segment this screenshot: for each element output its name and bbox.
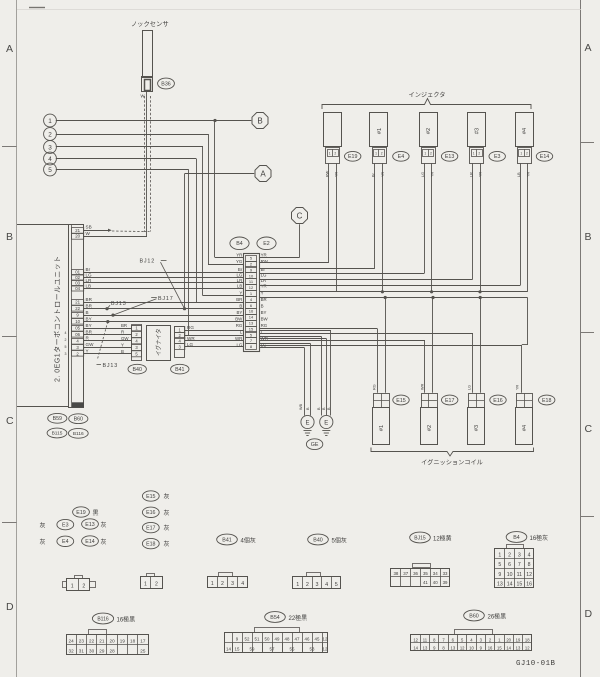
off-page octagon A [255,166,271,182]
svg-text:12: 12 [323,647,328,652]
connector E3 oval [489,151,505,161]
wire ECU to strip at y=321.6 [84,321,243,323]
wire 4 horizontal [56,158,196,160]
svg-text:YR: YR [430,171,434,177]
igniter connector B41 pin column [175,327,185,358]
svg-text:Y: Y [86,349,89,354]
wire 1 to B [56,120,252,122]
svg-text:2: 2 [430,151,432,155]
svg-text:灰: 灰 [164,509,170,517]
svg-text:2: 2 [478,151,480,155]
wire ground vertical 3 [321,337,323,416]
svg-text:8: 8 [528,562,531,568]
legend 2-pin connector (black type) [67,579,90,591]
svg-text:35: 35 [423,571,428,576]
knock sensor connector [142,77,153,92]
wire 5 vertical [188,170,190,336]
wire injector1 signal row [259,268,375,270]
svg-text:5: 5 [48,167,52,174]
top-left registration dash [29,7,45,9]
svg-text:06: 06 [75,332,80,337]
svg-text:E3: E3 [62,523,69,529]
svg-text:1: 1 [48,118,52,125]
svg-text:D: D [6,601,14,613]
injector #3 [468,113,486,147]
svg-text:40: 40 [433,580,438,585]
wire row1 left [215,257,243,259]
right tick 3 [581,516,594,518]
svg-text:E14: E14 [540,154,549,160]
svg-text:11: 11 [423,637,428,642]
wire ECU to igniter B40 at y=340.9 [84,340,132,342]
svg-text:24: 24 [69,639,75,644]
BJ17 label dash [151,297,157,299]
legend B40 oval [308,534,329,545]
injector connector 3 [470,148,484,164]
svg-text:LR: LR [469,172,473,177]
ignition coil bracket [371,448,534,457]
svg-text:04: 04 [75,286,80,291]
svg-text:10: 10 [75,319,80,324]
svg-text:3: 3 [65,352,67,356]
svg-text:#1: #1 [377,128,383,134]
svg-text:1: 1 [520,151,522,155]
svg-text:2: 2 [306,582,309,588]
svg-text:GE: GE [311,442,319,448]
injector connector 1 [373,148,387,164]
ground GE oval [306,439,322,450]
svg-text:LR: LR [237,278,243,283]
injector #1 [370,113,388,147]
svg-text:#4: #4 [522,425,528,431]
wire injector1 left vertical [374,163,376,268]
wire injector4 signal row [259,285,520,287]
svg-text:LG: LG [468,385,472,390]
wire SB shield drain from ECU pin 21 [84,230,108,232]
ignition coil #1 connector [374,394,390,408]
legend B40 connector face [293,577,341,589]
wire row7 left [203,295,243,297]
connector B36 oval [158,78,175,89]
svg-text:B115: B115 [52,431,63,437]
svg-text:50: 50 [265,637,270,642]
svg-text:19: 19 [120,639,126,644]
connector E19 oval [345,151,361,161]
svg-text:A: A [585,42,592,54]
svg-text:E4: E4 [398,154,405,160]
legend B60 connector face [411,635,532,651]
ground terminal E at x=326.3 [320,415,333,435]
svg-text:B: B [585,231,592,243]
svg-text:3: 3 [518,552,521,558]
svg-text:11: 11 [517,572,522,578]
junction BJ13 lower [106,320,109,323]
svg-text:E2: E2 [263,241,270,247]
svg-text:13: 13 [451,645,456,650]
svg-text:21: 21 [75,300,80,305]
wire coil4 down to connector [521,345,523,393]
svg-text:YR: YR [335,171,339,177]
svg-text:B60: B60 [469,613,478,619]
ECU connector box [69,225,84,408]
svg-text:E4: E4 [62,539,69,545]
svg-text:W: W [141,94,145,99]
svg-text:YR: YR [261,252,267,257]
svg-text:46: 46 [305,637,310,642]
wire B41 to strip y=330 [185,330,243,332]
svg-text:R: R [121,330,124,335]
strip pin cells [246,256,257,262]
wire ground row 5 [259,330,331,332]
ECU pin cells group 2 (01-04) [72,270,84,276]
svg-text:14: 14 [226,647,231,652]
svg-text:14: 14 [506,645,511,650]
legend E13 oval [82,519,99,529]
ground terminal E at x=307.5 [301,415,314,435]
svg-text:W: W [86,231,91,236]
wire B41 to strip y=341 [185,340,243,342]
svg-text:5個灰: 5個灰 [332,536,347,544]
svg-text:E19: E19 [348,154,357,160]
svg-text:B41: B41 [175,367,184,373]
svg-text:YR: YR [381,171,385,177]
BJ12 label dash [161,260,167,262]
svg-text:イグニッションコイル: イグニッションコイル [421,459,483,467]
svg-text:B116: B116 [73,431,84,437]
svg-text:#3: #3 [475,128,481,134]
svg-text:BY: BY [261,310,267,315]
injector #4 [516,113,534,147]
svg-text:7: 7 [518,562,521,568]
ECU pin column divider [71,224,73,407]
svg-text:灰: 灰 [164,540,170,548]
injector connector 0 [326,148,340,164]
svg-text:E: E [305,420,309,426]
svg-text:16極黒: 16極黒 [117,615,136,623]
svg-text:BY: BY [86,316,92,321]
svg-text:03: 03 [75,281,80,286]
svg-text:E19: E19 [76,510,85,516]
wire ground vertical 2 [310,344,312,416]
BJ12 leader line [161,262,185,309]
wire row2 left [208,264,243,266]
legend B41 oval [217,534,238,545]
svg-text:E: E [324,420,328,426]
svg-text:RG: RG [236,323,243,328]
svg-text:4: 4 [65,331,67,335]
svg-text:E13: E13 [85,522,94,528]
svg-text:#2: #2 [427,425,433,431]
svg-text:12: 12 [323,637,328,642]
svg-text:01: 01 [75,270,80,275]
svg-text:13: 13 [497,582,503,588]
legend E18 oval [142,538,159,548]
svg-text:BR: BR [86,304,93,309]
wire 5 horizontal [56,169,189,171]
svg-text:29: 29 [99,649,105,654]
left tick 2 [2,336,17,338]
shield dashed right [150,96,152,232]
svg-text:5: 5 [335,582,338,588]
wire vertical from junction to strip row 1 [214,121,216,258]
svg-text:10: 10 [469,645,474,650]
svg-text:BW: BW [235,317,243,322]
wire injector common row [259,291,527,293]
svg-text:5: 5 [65,345,67,349]
svg-text:55: 55 [290,647,295,652]
legend B54 connector face [225,633,328,653]
legend E19 oval [73,507,90,517]
off-page octagon B [252,113,268,129]
svg-text:YR: YR [516,384,520,390]
svg-text:14: 14 [507,582,513,588]
connector B59 oval [48,413,67,423]
wire injector3 signal row [259,279,472,281]
svg-text:12: 12 [249,285,254,290]
shield dashed bottom [144,231,151,233]
junction injector common x=431.6 [430,290,433,293]
arrowhead on shield drain [108,229,112,232]
svg-text:LB: LB [86,283,92,288]
svg-text:13: 13 [423,645,428,650]
svg-text:RW: RW [325,170,329,177]
svg-text:黒: 黒 [93,510,99,517]
svg-text:B: B [239,304,242,309]
wire ECU to igniter B40 at y=347.4 [84,347,132,349]
wire coil4 long row [259,345,522,347]
wire ECU to igniter B40 at y=328 [84,328,132,330]
svg-text:A: A [6,43,13,55]
svg-text:15: 15 [235,647,240,652]
injector (unnumbered) [324,113,342,147]
svg-text:B4: B4 [513,535,520,541]
svg-text:33: 33 [443,571,448,576]
wire injector0 left vertical [328,163,330,263]
svg-text:RG: RG [261,323,268,328]
svg-text:23: 23 [79,639,85,644]
frame top border [17,9,581,11]
svg-text:E17: E17 [146,526,155,532]
connector E17 oval [442,395,458,405]
BJ17 leader line [113,299,157,315]
connector E18 oval [539,395,555,405]
svg-text:15: 15 [497,645,502,650]
connector B60 oval [69,414,88,424]
svg-text:B59: B59 [53,416,62,422]
wire ECU to igniter B40 at y=353.8 [84,353,132,355]
legend B116 connector face [67,635,149,655]
svg-text:2: 2 [65,338,67,342]
legend B60 oval [464,610,485,621]
wire injector right vertical x=431.6 [431,163,433,291]
svg-text:LG: LG [236,342,242,347]
svg-text:GW: GW [121,336,129,341]
BJ13 dashed leader [98,322,108,359]
svg-text:YR: YR [479,171,483,177]
svg-text:B54: B54 [270,615,279,621]
svg-text:LG: LG [236,272,242,277]
svg-text:灰: 灰 [40,522,46,530]
svg-text:2: 2 [82,584,85,590]
svg-text:10: 10 [507,572,513,578]
wire injector2 left vertical [424,163,426,273]
svg-text:E17: E17 [445,398,454,404]
svg-text:2: 2 [334,151,336,155]
connector B116 oval [68,428,88,438]
wire ECU to strip at y=288.5 [84,288,243,290]
shield dashed left [144,96,146,232]
ignition coil #2 body [421,408,438,445]
svg-text:28: 28 [110,649,116,654]
wire ground row 3 [259,336,321,338]
svg-text:BY: BY [236,310,242,315]
svg-text:LG: LG [421,172,425,177]
svg-text:4: 4 [48,156,52,163]
ignition coil #2 connector [422,394,438,408]
wire injector3 left vertical [472,163,474,279]
knock sensor connector inner pin [145,80,151,91]
svg-text:32: 32 [69,649,75,654]
svg-text:Y: Y [239,291,242,296]
svg-text:38: 38 [393,571,398,576]
svg-text:GJ10-01B: GJ10-01B [516,660,556,668]
wire B41 to strip y=347 [185,346,243,348]
svg-text:#4: #4 [522,128,528,134]
wire ECU to strip at y=277.5 [84,277,243,279]
wire ECU to strip at y=308.7 [84,308,243,310]
junction coil common x=385.2 [384,296,387,299]
svg-text:RG: RG [373,384,377,390]
off-page connector circle 5 [44,163,57,176]
svg-text:12: 12 [525,645,530,650]
junction injector common x=480 [478,290,481,293]
BJ13 label dash [97,364,102,366]
legend B41 connector face [208,577,248,588]
connector E13 oval [441,151,457,161]
wire coil3 trigger vertical [472,334,474,393]
svg-text:E18: E18 [146,542,155,548]
svg-text:57: 57 [270,647,275,652]
wire ECU to strip at y=283 [84,282,243,284]
svg-text:22極黒: 22極黒 [289,614,308,622]
svg-text:59: 59 [250,647,255,652]
wire coil right vertical x=480.2 [480,298,482,393]
ECU end dark cell [72,402,84,407]
svg-text:LB: LB [237,283,242,288]
wire ground row 4 [259,338,326,340]
off-page connector circle 4 [44,152,57,165]
svg-text:E15: E15 [396,398,405,404]
svg-text:LB: LB [517,172,521,177]
junction coil common x=480.2 [479,296,482,299]
right tick 1 [581,142,594,144]
connector B40 oval [128,364,146,374]
svg-text:4個灰: 4個灰 [241,536,256,544]
igniter box [147,326,171,361]
svg-text:B41: B41 [222,537,231,543]
svg-text:LR: LR [261,278,267,283]
junction injector common x=382.4 [381,290,384,293]
wire coil common row [259,297,527,299]
wire ECU to igniter B40 at y=334.5 [84,334,132,336]
svg-text:B: B [261,304,264,309]
svg-text:B4: B4 [236,241,243,247]
svg-text:B60: B60 [74,417,83,423]
svg-text:36: 36 [413,571,418,576]
svg-text:16: 16 [526,582,532,588]
svg-text:1: 1 [211,581,214,587]
svg-text:E18: E18 [542,398,551,404]
wire coil4 feed jog [522,344,528,346]
legend BJ15 oval [410,532,431,543]
svg-text:25: 25 [140,649,146,654]
wire coil2 trigger vertical [424,341,426,393]
svg-text:1: 1 [424,151,426,155]
wire injector4 right vertical [527,163,529,291]
svg-text:10: 10 [249,273,254,278]
svg-text:E13: E13 [445,154,454,160]
svg-text:5: 5 [498,562,501,568]
svg-text:15: 15 [516,582,522,588]
svg-text:1: 1 [329,151,331,155]
legend E4 oval [57,536,74,546]
svg-text:YR: YR [236,252,242,257]
svg-text:BJ15: BJ15 [414,535,426,541]
shield dashed drain [112,230,144,233]
svg-text:B: B [121,349,124,354]
svg-text:3: 3 [48,144,52,151]
svg-text:#3: #3 [474,425,480,431]
svg-text:イグナイタ: イグナイタ [155,328,163,356]
svg-text:E15: E15 [146,494,155,500]
wire row1 right to C [259,257,299,259]
svg-text:41: 41 [423,580,428,585]
svg-text:20: 20 [110,639,116,644]
svg-text:18: 18 [130,639,136,644]
svg-text:灰: 灰 [101,538,107,546]
off-page connector circle 2 [44,128,57,141]
legend E14 oval [82,536,99,546]
connector E15 oval [393,395,409,405]
svg-text:1: 1 [498,552,501,558]
svg-text:WB: WB [299,403,303,410]
svg-text:37: 37 [403,571,408,576]
svg-text:4: 4 [325,582,328,588]
svg-text:3: 3 [316,582,319,588]
svg-text:BR: BR [86,297,93,302]
svg-text:13: 13 [516,645,521,650]
svg-text:18: 18 [525,637,530,642]
svg-text:YG: YG [236,259,243,264]
wire coil right vertical x=385.2 [385,298,387,393]
wire 2 vertical [208,134,210,264]
svg-text:A: A [260,169,266,178]
svg-text:21: 21 [99,639,105,644]
svg-text:6: 6 [508,562,511,568]
svg-text:灰: 灰 [164,524,170,532]
svg-text:C: C [297,211,303,220]
wire ECU to strip at y=315.1 [84,315,243,317]
connector B115 oval [47,428,67,438]
connector B4 oval [230,237,249,250]
injector connector 2 [422,148,436,164]
svg-text:9: 9 [498,572,501,578]
svg-text:45: 45 [315,637,320,642]
ignition coil #4 connector [517,394,533,408]
svg-text:30: 30 [89,649,95,654]
svg-text:16: 16 [249,309,254,314]
injector #2 [420,113,438,147]
